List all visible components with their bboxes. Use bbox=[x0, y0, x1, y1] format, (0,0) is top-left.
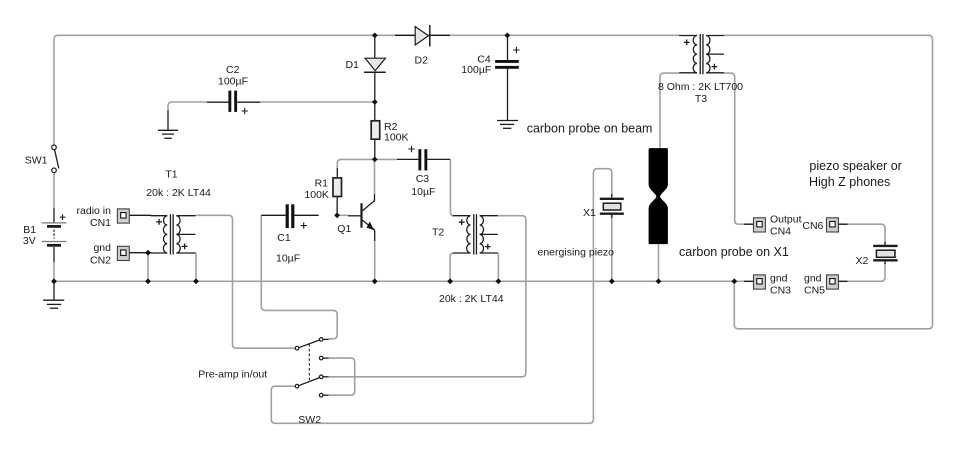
svg-text:SW1: SW1 bbox=[25, 155, 48, 167]
svg-text:CN3: CN3 bbox=[770, 284, 791, 296]
svg-text:100µF: 100µF bbox=[218, 76, 248, 88]
svg-text:CN4: CN4 bbox=[770, 225, 791, 237]
svg-text:C1: C1 bbox=[277, 232, 291, 244]
svg-text:8 Ohm : 2K LT700: 8 Ohm : 2K LT700 bbox=[658, 81, 743, 93]
svg-text:C3: C3 bbox=[416, 173, 430, 185]
svg-text:10µF: 10µF bbox=[276, 253, 300, 265]
svg-text:gnd: gnd bbox=[770, 273, 788, 285]
svg-text:3V: 3V bbox=[23, 235, 36, 247]
svg-text:carbon probe on beam: carbon probe on beam bbox=[527, 121, 653, 135]
svg-text:SW2: SW2 bbox=[298, 414, 321, 426]
svg-text:gnd: gnd bbox=[804, 273, 822, 285]
svg-text:C2: C2 bbox=[226, 64, 240, 76]
svg-text:T1: T1 bbox=[165, 169, 177, 181]
svg-text:CN5: CN5 bbox=[804, 284, 825, 296]
svg-text:T3: T3 bbox=[695, 93, 707, 105]
svg-text:D2: D2 bbox=[415, 55, 429, 67]
svg-text:CN6: CN6 bbox=[802, 220, 823, 232]
svg-text:piezo speaker or: piezo speaker or bbox=[809, 159, 901, 173]
svg-text:energising piezo: energising piezo bbox=[538, 247, 615, 259]
svg-text:High Z phones: High Z phones bbox=[809, 175, 890, 189]
svg-text:CN1: CN1 bbox=[90, 217, 111, 229]
svg-text:CN2: CN2 bbox=[90, 255, 111, 267]
svg-text:D1: D1 bbox=[346, 59, 360, 71]
svg-text:20k : 2K LT44: 20k : 2K LT44 bbox=[439, 293, 504, 305]
svg-text:X2: X2 bbox=[856, 255, 869, 267]
svg-text:B1: B1 bbox=[23, 224, 36, 236]
svg-text:R1: R1 bbox=[315, 177, 329, 189]
svg-text:X1: X1 bbox=[583, 207, 596, 219]
svg-text:Output: Output bbox=[770, 214, 802, 226]
svg-text:T2: T2 bbox=[432, 227, 444, 239]
svg-text:20k : 2K LT44: 20k : 2K LT44 bbox=[146, 187, 211, 199]
svg-text:100µF: 100µF bbox=[461, 64, 491, 76]
svg-text:Q1: Q1 bbox=[337, 223, 351, 235]
svg-text:Pre-amp in/out: Pre-amp in/out bbox=[198, 369, 267, 381]
svg-text:gnd: gnd bbox=[93, 242, 111, 254]
svg-text:radio in: radio in bbox=[77, 205, 112, 217]
svg-text:100K: 100K bbox=[384, 132, 409, 144]
svg-text:100K: 100K bbox=[304, 189, 329, 201]
svg-text:carbon probe on X1: carbon probe on X1 bbox=[679, 245, 789, 259]
svg-text:10µF: 10µF bbox=[411, 186, 435, 198]
